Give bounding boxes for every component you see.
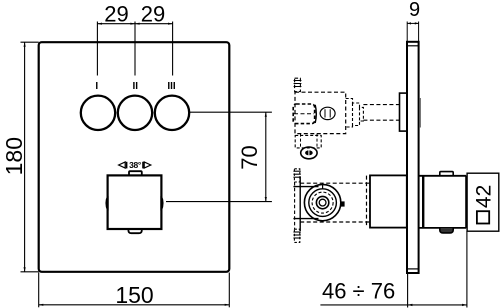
dimension 70 extension lines [166,112,272,201]
lower valve body (dashed) [300,176,370,228]
side view: wall plate [407,42,419,273]
upper valve: top threaded stub [295,78,301,91]
upper valve oval port [320,107,335,119]
knob top tab [129,171,142,175]
knob side bottom tab [440,228,453,233]
spindle flange at wall [400,93,408,131]
svg-text:III: III [167,81,176,92]
knob (side view) [419,176,467,228]
cartridge top notch [322,183,324,189]
boxed dim square-42 [467,173,499,231]
svg-text:42: 42 [473,185,496,208]
dimension line 46-76 [320,304,467,306]
svg-text:29: 29 [104,1,128,26]
inner block centerline [294,113,314,115]
lower valve: flange top stub [293,169,300,182]
svg-text:II: II [133,81,139,92]
front view: wall plate [39,42,230,272]
spindle (dashed) [363,105,399,121]
dimension 180 extension lines [21,42,39,272]
button B3 (III) [155,96,189,130]
svg-text:I: I [95,81,98,92]
bracket screw grommet [301,147,317,159]
svg-text:180: 180 [1,137,27,175]
lower valve: flange bottom stub [293,229,300,242]
through-wall sleeve [370,175,407,227]
castellated nut (dashed) [346,99,364,128]
knob (front view, square handle) [108,175,162,229]
upper valve mounting bracket [295,135,321,148]
svg-text:29: 29 [141,1,165,26]
svg-text:9: 9 [409,0,420,21]
upper valve inner block [293,104,314,124]
svg-text:150: 150 [115,282,153,308]
dimension 29-29 extension lines [97,22,172,76]
buttons protruding (side) [419,98,421,128]
svg-text:46 ÷ 76: 46 ÷ 76 [322,279,395,304]
dimension line 70 [265,112,267,201]
upper valve body (dashed) [295,92,346,133]
dimension line 29-29 [97,23,172,25]
set screw (filled) [340,201,345,206]
knob bottom tab [128,229,141,233]
dimension 9 [407,22,418,42]
38-degree rotation label [119,160,151,170]
knob right ear [161,196,163,211]
dimension 46-76 extension lines [408,231,467,307]
dimension line 180 [24,42,26,272]
svg-text:38°: 38° [129,160,142,170]
knob left ear [106,196,108,211]
inner block right arc [315,105,316,123]
square glyph [477,211,489,223]
svg-text:70: 70 [237,145,262,169]
button B1 (I) [81,96,115,130]
lower valve flange [294,182,296,229]
knob side top tab [440,172,453,176]
button B2 (II) [118,96,152,130]
dimension 150 extension lines [39,273,230,308]
cartridge rings [304,184,340,220]
dimension line 150 [39,304,230,306]
